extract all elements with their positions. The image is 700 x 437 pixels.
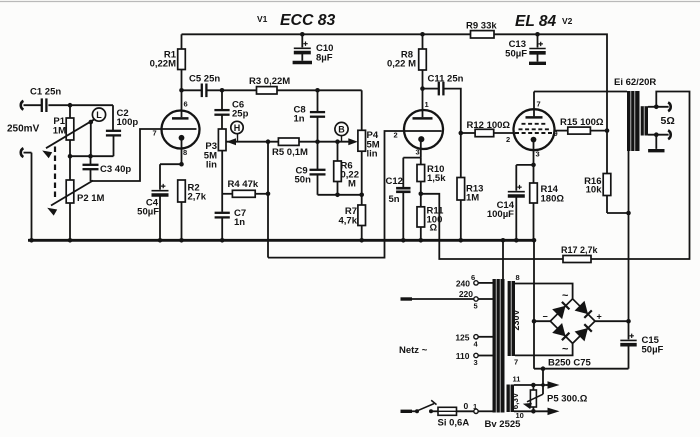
svg-text:Ω: Ω (430, 223, 438, 234)
resistor R1 (178, 34, 186, 90)
svg-text:2: 2 (394, 131, 398, 140)
P4 wiper arrow (348, 138, 358, 145)
V1b cathode (418, 136, 424, 158)
wire cathode jog to C12 (403, 158, 421, 165)
label R3 0,22M (249, 76, 290, 87)
wire C1 to node (48, 104, 113, 106)
svg-text:lin: lin (206, 160, 217, 171)
node P4 bottom (359, 193, 364, 198)
svg-text:R17 2,7k: R17 2,7k (561, 245, 599, 255)
label 110 pin 3 (456, 351, 478, 367)
mains transformer 230V winding (508, 281, 515, 356)
svg-text:5Ω: 5Ω (661, 115, 675, 127)
svg-text:1: 1 (473, 402, 477, 411)
svg-text:220: 220 (459, 289, 473, 299)
node R10 R11 (419, 192, 424, 197)
svg-text:250mV: 250mV (7, 124, 40, 135)
svg-text:1n: 1n (234, 217, 245, 228)
potentiometer P4 (358, 90, 366, 205)
svg-text:EL 84: EL 84 (515, 13, 556, 30)
svg-text:8: 8 (183, 148, 187, 157)
label 5Ω (661, 115, 675, 127)
ground node C4 (158, 238, 163, 243)
label Si 0,6A (438, 418, 470, 429)
node P5 top (531, 383, 545, 388)
svg-text:25p: 25p (232, 109, 249, 120)
tap 125 (474, 335, 493, 339)
tap 220 (412, 297, 493, 301)
B+ rail top (182, 34, 608, 130)
wire bridge minus to ground drop (534, 320, 550, 322)
pin 6 label (184, 100, 188, 109)
resistor R14 (530, 165, 538, 240)
svg-text:6: 6 (184, 100, 188, 109)
ground node C12 (401, 238, 406, 243)
pin 8 label PSU (516, 273, 520, 282)
V1a anode (172, 90, 189, 118)
svg-text:4,7k: 4,7k (339, 216, 358, 227)
wire 230V pin8 to bridge (515, 284, 573, 300)
svg-text:C5 25n: C5 25n (189, 74, 220, 85)
NFB wire R17 to output (591, 92, 690, 260)
ganged dashed link P1-P2 (54, 147, 56, 200)
ground node P2 (68, 238, 73, 243)
svg-text:100p: 100p (117, 117, 139, 128)
ground node R13 (459, 238, 464, 243)
ground node C7 (220, 238, 225, 243)
capacitor C9 (310, 142, 326, 195)
ground node R7 (359, 238, 364, 243)
node R6 top (335, 139, 340, 144)
label R6 0,22M (341, 161, 360, 190)
svg-text:R12 100Ω: R12 100Ω (467, 120, 511, 131)
label R2 2,7k (188, 183, 207, 203)
svg-text:Si 0,6A: Si 0,6A (438, 418, 470, 429)
svg-text:6,3V: 6,3V (511, 392, 520, 409)
wire lower node (70, 155, 114, 157)
svg-text:1,5k: 1,5k (427, 173, 446, 184)
circle B annotation (335, 122, 348, 141)
mains transformer 6.3V winding (507, 385, 515, 413)
triode V1b envelope (404, 110, 443, 149)
svg-text:3: 3 (474, 358, 478, 367)
pentode EL84 envelope (514, 109, 555, 150)
NFB wire R10 junction to R17 (421, 194, 563, 259)
svg-text:H: H (234, 123, 241, 133)
input jack J2 (bottom) (21, 148, 32, 157)
resistor R7 (358, 205, 366, 240)
label R8 0,22M (387, 50, 416, 70)
bridge rectifier B250 C75 diamond (550, 299, 595, 344)
svg-text:C1 25n: C1 25n (30, 87, 61, 98)
label C3 40p (100, 164, 131, 175)
svg-text:1M: 1M (53, 126, 66, 137)
node C8 top (315, 88, 320, 93)
speaker jack top (668, 102, 671, 111)
tap 110 (474, 353, 493, 357)
tone control wire (227, 141, 355, 143)
resistor R8 (419, 34, 427, 88)
EL84 anode (526, 92, 543, 118)
capacitor C13 (529, 34, 546, 63)
svg-text:50µF: 50µF (505, 49, 527, 60)
node B+ C15 (626, 319, 631, 324)
label P3 5M lin (204, 141, 217, 171)
bridge diode D1 (552, 302, 569, 319)
label C7 1n (234, 208, 246, 228)
svg-text:6: 6 (471, 273, 475, 282)
svg-text:8µF: 8µF (316, 53, 333, 64)
input jack J1 (top) (21, 101, 41, 110)
OT primary winding (627, 91, 640, 151)
EL84 screen grid g2 (522, 123, 547, 125)
node R6 bottom (335, 193, 340, 198)
label R9 33k (466, 21, 497, 32)
ground node R2 (179, 238, 184, 243)
label 6,3V rotated (511, 392, 520, 409)
ground node C14 (514, 238, 519, 243)
bridge diode D4 (575, 324, 592, 341)
capacitor C14 (508, 165, 525, 240)
EL84 control grid g1 (515, 132, 552, 134)
svg-text:C12: C12 (386, 176, 403, 187)
label C15 50µF (642, 335, 664, 356)
heater wire pin 11 (514, 381, 560, 389)
ground rail (28, 239, 536, 242)
svg-text:230V: 230V (511, 309, 521, 330)
node P2 top (68, 154, 73, 159)
resistor R9 (471, 31, 495, 38)
potentiometer P5 (530, 385, 536, 411)
label 230V rotated (511, 309, 521, 330)
pin 7 label (153, 129, 157, 138)
label R4 47k (228, 179, 259, 190)
heater wire pin 10 (514, 408, 560, 416)
svg-text:50µF: 50µF (642, 345, 664, 356)
label R1 0,22M (150, 50, 177, 70)
svg-text:Bv 2525: Bv 2525 (485, 419, 522, 430)
capacitor C1 (42, 98, 47, 112)
potentiometer P3 (218, 129, 226, 212)
resistor R12 (461, 129, 514, 136)
node tone junction (266, 139, 271, 144)
ground node R11 (419, 238, 424, 243)
svg-text:0: 0 (464, 401, 469, 411)
capacitor C10 (293, 34, 312, 62)
node OT primary bottom (626, 211, 631, 216)
ground drop from rail (533, 240, 535, 368)
capacitor C6 (214, 90, 229, 129)
node C10 top (300, 32, 305, 37)
transformer core ground (502, 240, 504, 281)
pin 8 label (183, 148, 187, 157)
label 220 pin 5 (459, 289, 478, 311)
svg-text:lin: lin (367, 149, 378, 160)
label R14 180Ω (541, 184, 565, 205)
capacitor C2 (106, 131, 121, 156)
svg-text:240: 240 (456, 279, 470, 289)
svg-text:−: − (543, 312, 548, 322)
EL84 cathode (531, 137, 537, 165)
label C6 25p (232, 100, 249, 120)
V1b grid line (405, 130, 442, 132)
svg-text:Netz ~: Netz ~ (399, 345, 428, 356)
potentiometer P2 (66, 156, 74, 240)
label C11 25n (428, 74, 464, 85)
pin 3 label EL84 (536, 150, 540, 159)
svg-text:1: 1 (425, 100, 429, 109)
capacitor C12 (396, 158, 410, 241)
EL84 anode wire to OT (534, 91, 627, 93)
triode V1a envelope (162, 111, 200, 149)
pin 1 label (425, 100, 429, 109)
V1b anode (413, 89, 433, 119)
capacitor C8 (310, 90, 325, 141)
potentiometer P1 (66, 105, 74, 156)
node P1 top (68, 103, 73, 108)
wire bridge plus (595, 320, 629, 322)
svg-text:100µF: 100µF (487, 209, 514, 220)
capacitor C15 (620, 321, 636, 369)
node C3 top (88, 154, 93, 159)
pin 7 label EL84 (537, 100, 541, 109)
label plus (597, 312, 602, 322)
capacitor C7 (215, 213, 230, 241)
label R5 0,1M (272, 147, 308, 158)
wire tone junction down (267, 142, 269, 258)
resistor R3 (257, 87, 362, 94)
B+ riser from rectifier (628, 213, 630, 321)
fuse Si 0,6A (438, 407, 457, 415)
wire corner to C2 (112, 105, 114, 130)
svg-text:V1: V1 (257, 14, 268, 24)
svg-text:8: 8 (516, 273, 520, 282)
resistor R16 (603, 131, 611, 213)
tap 240 (474, 281, 493, 285)
P3 wiper arrow (227, 138, 237, 145)
svg-text:1n: 1n (294, 114, 305, 125)
label P4 5M lin (367, 130, 380, 160)
label B250 C75 (548, 358, 591, 369)
resistor R2 (178, 180, 186, 240)
label C10 8µF (316, 43, 333, 64)
resistor R10 (417, 165, 425, 194)
svg-text:C11 25n: C11 25n (428, 74, 464, 85)
title V1 ECC 83 (257, 12, 336, 29)
OT secondary winding (641, 106, 648, 135)
bridge diode D3 (552, 323, 569, 340)
wire wiper to lower node (90, 122, 92, 156)
svg-text:5n: 5n (389, 194, 400, 205)
svg-text:10: 10 (516, 411, 524, 420)
label R10 1,5k (427, 164, 446, 184)
wire C9 R6 P4 bottoms (318, 194, 362, 196)
label R15 100Ω (560, 117, 604, 128)
svg-text:P5 300.Ω: P5 300.Ω (547, 394, 588, 405)
label R16 10k (584, 176, 602, 196)
resistor R13 (457, 133, 465, 240)
mains switch (412, 400, 438, 413)
resistor R15 (568, 127, 607, 134)
node C6 top (220, 88, 225, 93)
pin 2 label (394, 131, 398, 140)
grid route loop to V1b (268, 131, 405, 258)
label R12 100Ω (467, 120, 511, 131)
svg-text:ECC 83: ECC 83 (280, 12, 336, 29)
pin 3 label (416, 148, 420, 157)
speaker jack bottom (668, 130, 671, 139)
resistor R17 (563, 256, 591, 263)
svg-text:7: 7 (514, 358, 518, 367)
OT primary bottom lead (628, 151, 630, 213)
EL84 suppressor g3 (519, 128, 550, 130)
svg-text:50n: 50n (295, 175, 312, 186)
node P5 ground (541, 366, 546, 371)
node R15 R16 (605, 128, 610, 133)
capacitor C5 (182, 84, 257, 98)
label C1 25n (30, 87, 61, 98)
mains stub 220 (401, 297, 413, 300)
svg-text:7: 7 (153, 129, 157, 138)
ground node core (501, 238, 506, 243)
wire 230V pin7 to bridge (515, 344, 573, 356)
V1a grid line (162, 128, 197, 130)
label C2 100p (117, 108, 139, 128)
node bridge minus (532, 319, 537, 324)
svg-text:R15 100Ω: R15 100Ω (560, 117, 604, 128)
EL84 screen wire (554, 130, 567, 132)
capacitor C4 (152, 164, 169, 240)
svg-text:R4 47k: R4 47k (228, 179, 259, 190)
speaker wire bottom (648, 134, 669, 136)
svg-text:125: 125 (455, 333, 469, 343)
label R17 2,7k (561, 245, 599, 255)
wire C3 to V1a grid route (91, 129, 162, 181)
svg-text:2,7k: 2,7k (188, 192, 207, 203)
node R4 right (266, 192, 271, 197)
label minus (543, 312, 548, 322)
label R13 1M (466, 184, 483, 204)
pin 9 label EL84 (554, 129, 558, 138)
bridge diode D2 (575, 301, 592, 318)
node cathode V1a (179, 162, 184, 167)
svg-text:+: + (597, 312, 602, 322)
ground node R14 rail end (532, 238, 537, 243)
circle H annotation (231, 121, 243, 141)
node speaker top (654, 105, 659, 110)
mains transformer primary winding (493, 279, 505, 413)
label ~ top (562, 290, 569, 302)
node P1 wiper (89, 120, 94, 125)
capacitor C3 (83, 156, 99, 181)
lamp circle L annotation (92, 108, 105, 121)
svg-text:0,22 M: 0,22 M (387, 59, 416, 70)
wire J2 to ground rail (31, 153, 33, 241)
label C13 50µF (505, 39, 527, 60)
label R7 4,7k (339, 206, 358, 227)
svg-text:V2: V2 (562, 16, 573, 26)
label C8 1n (294, 105, 306, 125)
node EL84 cathode (531, 163, 536, 168)
speaker wire top (648, 106, 669, 108)
P5 wiper (523, 369, 543, 409)
label P5 300Ω (547, 394, 588, 405)
label 125 pin 4 (455, 333, 478, 349)
label Bv 2525 (485, 419, 522, 430)
label C14 100µF (487, 200, 515, 220)
resistor R6 (334, 142, 342, 195)
svg-text:L: L (96, 110, 102, 120)
speaker ground (648, 135, 664, 151)
svg-text:Ei 62/20R: Ei 62/20R (614, 77, 656, 88)
svg-text:C3 40p: C3 40p (100, 164, 131, 175)
ground node J2 (29, 238, 34, 243)
svg-text:7: 7 (537, 100, 541, 109)
node R12 R13 (459, 131, 464, 136)
svg-text:10k: 10k (586, 185, 603, 196)
label 240 pin 6 (456, 273, 475, 289)
svg-text:~: ~ (562, 344, 569, 356)
label R11 100Ω (427, 206, 445, 234)
wire cathode to C4 (160, 163, 182, 165)
scan border top (0, 1, 700, 3)
svg-text:0,22M: 0,22M (150, 59, 176, 70)
pin 2 label EL84 (506, 135, 510, 144)
ground return wire (534, 368, 629, 370)
label 250mV (7, 124, 40, 135)
svg-text:5: 5 (474, 302, 478, 311)
svg-text:P2 1M: P2 1M (77, 193, 105, 204)
pin 10 label PSU (516, 411, 524, 420)
label C12 5n (386, 176, 403, 205)
title EL 84 V2 (515, 13, 573, 30)
resistor R5 (278, 138, 299, 145)
label P1 1M (53, 116, 66, 137)
V1a cathode (179, 135, 185, 164)
svg-text:M: M (348, 179, 356, 190)
svg-text:R3 0,22M: R3 0,22M (249, 76, 290, 87)
label ~ bottom (562, 344, 569, 356)
P1 wiper arrow (42, 119, 94, 158)
node P5 bottom (531, 409, 536, 414)
node V1b anode (420, 86, 425, 91)
wire cathode to C14 (516, 164, 533, 166)
P2 wiper arrow (47, 181, 93, 216)
mains stub 0 (401, 410, 413, 413)
node speaker bottom (654, 132, 659, 137)
label C5 25n (189, 74, 220, 85)
label 0 pin 1 (464, 401, 478, 411)
svg-text:~: ~ (562, 290, 569, 302)
svg-text:180Ω: 180Ω (541, 194, 565, 205)
node R1 bottom (179, 88, 184, 93)
svg-text:50µF: 50µF (137, 207, 159, 218)
svg-text:1M: 1M (466, 193, 479, 204)
svg-text:11: 11 (513, 375, 521, 384)
svg-text:3: 3 (416, 148, 420, 157)
label Netz (399, 345, 428, 356)
svg-text:R9 33k: R9 33k (466, 21, 497, 32)
pin 7 label PSU (514, 358, 518, 367)
svg-text:R5 0,1M: R5 0,1M (272, 147, 308, 158)
capacitor C11 (423, 82, 461, 133)
node C9 top (315, 139, 320, 144)
svg-text:B: B (338, 124, 345, 134)
node C13 top (535, 32, 540, 37)
label C9 50n (295, 166, 312, 186)
label C4 50µF (137, 198, 159, 218)
pin 11 label PSU (513, 375, 521, 384)
